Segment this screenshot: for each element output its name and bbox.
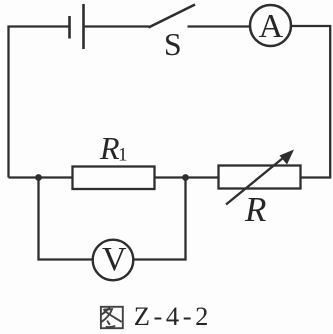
svg-text:R: R [244,190,266,229]
svg-text:Z-4-2: Z-4-2 [134,301,212,331]
svg-text:V: V [102,241,127,278]
svg-text:A: A [259,8,284,45]
svg-text:S: S [164,26,182,62]
svg-text:1: 1 [118,145,128,166]
svg-text:R: R [99,130,120,166]
